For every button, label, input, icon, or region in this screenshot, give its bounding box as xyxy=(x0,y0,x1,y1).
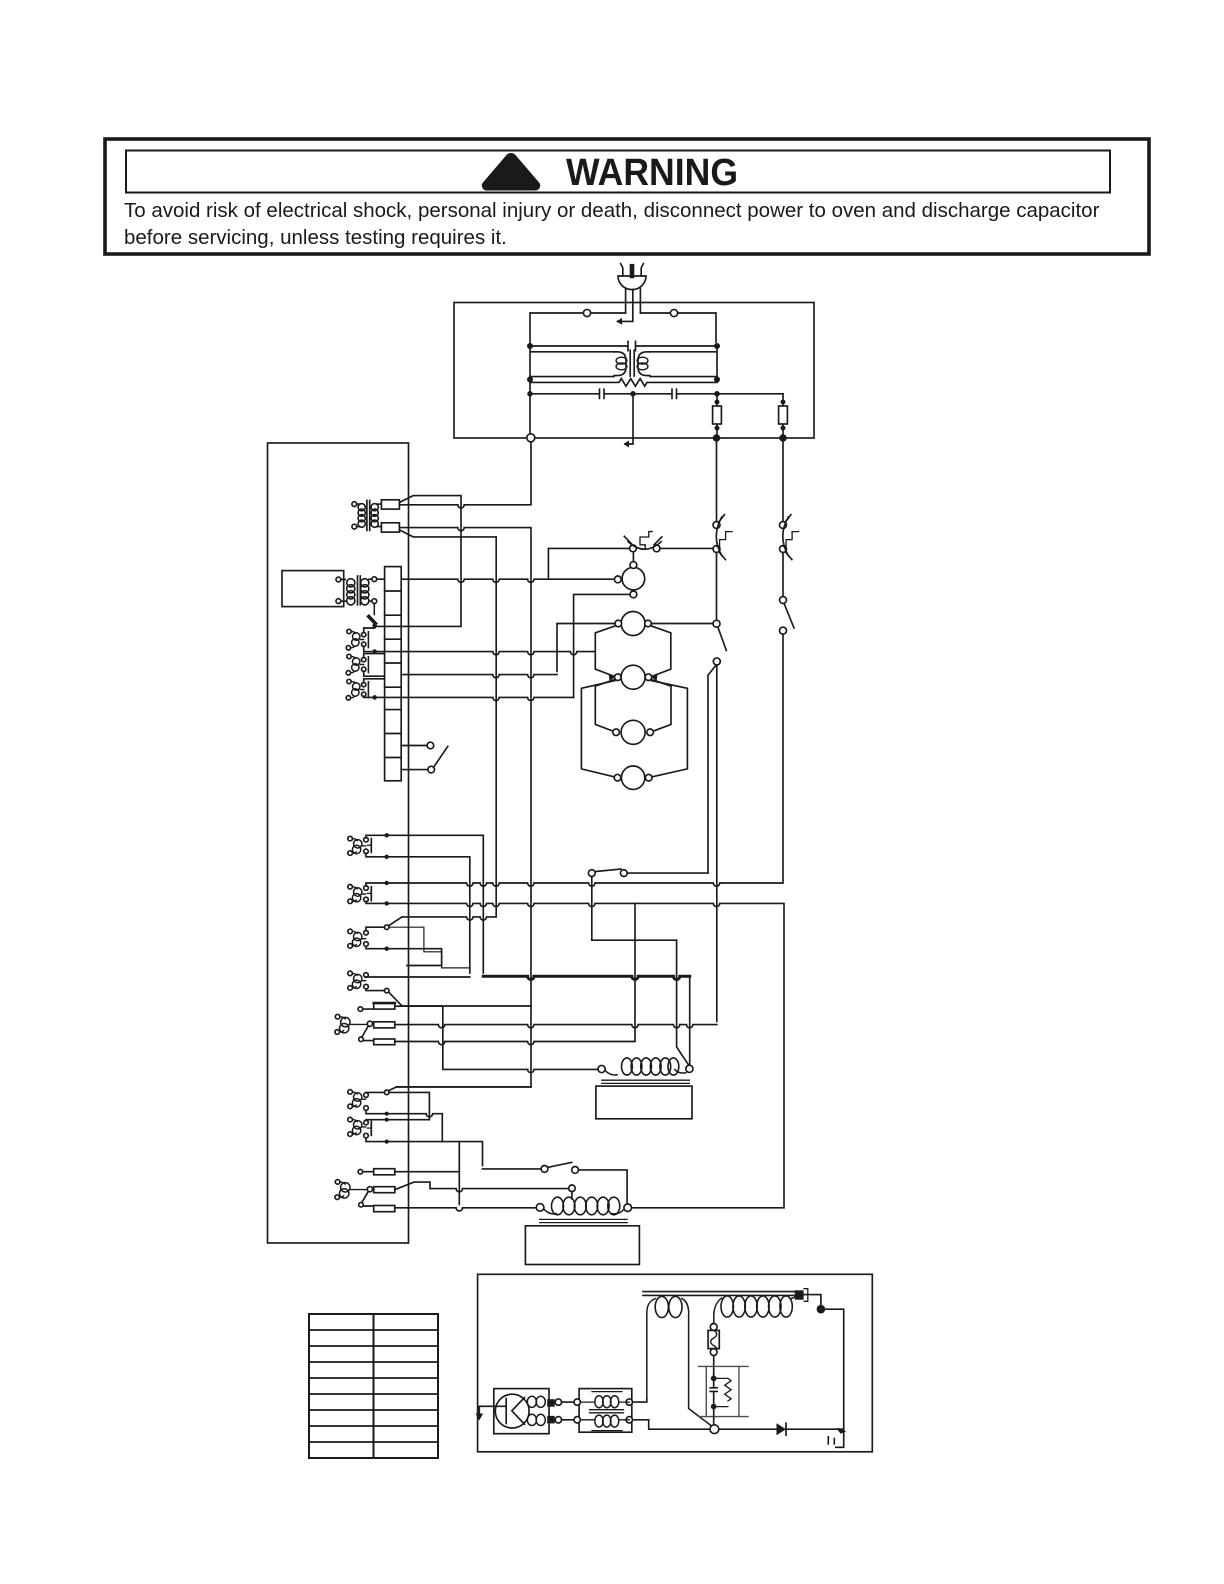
wire R11 to bus junction xyxy=(399,442,531,508)
left rail to bus xyxy=(529,382,531,434)
wire cell5 to M2 lead xyxy=(401,675,557,678)
wire M2 left lead xyxy=(557,624,615,672)
wire RY-E bottom xyxy=(366,1110,442,1141)
junction dots C1 xyxy=(530,343,717,349)
open circle junction on bus xyxy=(527,434,535,442)
relay RY-D coil xyxy=(348,971,366,990)
selector SW-B pivot and blade xyxy=(358,1169,374,1207)
relay transformer T2 xyxy=(336,576,377,605)
stirrer motor M3 xyxy=(615,665,652,689)
grey aux staircase xyxy=(389,927,470,968)
junction dots on bus xyxy=(717,434,784,442)
junction dot xyxy=(385,881,389,885)
relay RY-C contact open xyxy=(364,917,402,946)
junction dot xyxy=(385,833,389,837)
relay RY-E coil xyxy=(348,1090,366,1109)
magnetron ground xyxy=(476,1406,507,1420)
plug ground lead with arrow xyxy=(618,290,633,322)
monitor interlock switch S5 xyxy=(588,869,708,940)
HV secondary winding L3 xyxy=(714,1293,798,1324)
convection motor M4 xyxy=(613,720,654,744)
resistor R5 xyxy=(374,1187,395,1193)
strip relay RY2 xyxy=(346,654,384,677)
HV transformer label box xyxy=(525,1226,639,1265)
thin continuation and verticals to coil RY10 xyxy=(677,940,690,1065)
capacitor line C2 C3 xyxy=(530,389,783,398)
control unit box xyxy=(268,443,409,1243)
relay RY-C coil xyxy=(348,929,366,948)
choke winding loops xyxy=(616,357,648,370)
wire cell8 to start switch xyxy=(401,745,427,747)
selector SW-A pivot and blade xyxy=(358,1007,374,1042)
wire dot to right rail xyxy=(825,1309,844,1429)
wire RY-F bottom to relay switch xyxy=(366,1138,483,1166)
relay RY-F coil xyxy=(348,1117,366,1136)
wire R11 diagonal to upper run xyxy=(375,496,461,627)
fuse F2 xyxy=(779,394,788,438)
connector pin circle right xyxy=(670,309,677,316)
magnetron filament loops xyxy=(527,1396,545,1425)
junction dot HV xyxy=(817,1305,826,1314)
relay RY-D contact open xyxy=(364,973,470,1006)
junction dot cell4 xyxy=(372,649,377,654)
core terminal square xyxy=(795,1290,804,1299)
wire M2 right lead xyxy=(651,623,713,625)
wire R1 to coil line xyxy=(395,1006,599,1072)
choke winding brackets xyxy=(614,352,650,376)
resistor R6 xyxy=(374,1206,395,1212)
wire bus end y1087 xyxy=(397,1086,531,1088)
wire R3 to vertical 635 xyxy=(395,903,635,1044)
thermal cutout TCO xyxy=(624,532,713,552)
relay RY-E contact xyxy=(364,1087,430,1120)
thick wire y976 xyxy=(483,976,689,979)
magnetron MG1 xyxy=(494,1389,549,1434)
relay RY-A coil xyxy=(348,836,366,855)
power relay box RY10 xyxy=(282,571,344,607)
HV diode D1 xyxy=(719,1423,844,1435)
HV secondary core xyxy=(643,1292,801,1296)
wire R5 to coil tap xyxy=(395,1182,569,1192)
warning outer frame xyxy=(105,139,1149,254)
resistor R3 xyxy=(374,1039,395,1045)
wire R12 diagonal lower run xyxy=(400,530,497,917)
motor loop M2-M3 xyxy=(595,626,671,676)
HV transformer primary coil T3 xyxy=(536,1197,631,1222)
svg-text:before servicing, unless testi: before servicing, unless testing require… xyxy=(124,226,507,249)
wire R6 to HV primary left xyxy=(395,1208,537,1211)
relay RY-A contact xyxy=(364,837,372,853)
HV transformer primary tap xyxy=(569,1185,576,1199)
noise filter box xyxy=(454,303,814,439)
interlock switch S1 (line side) xyxy=(713,442,732,620)
strip relay RY3 xyxy=(346,679,384,700)
wire T4 lower to cathode bus xyxy=(633,1420,710,1429)
relay RY-B contact xyxy=(364,886,372,902)
relay RY-F contact xyxy=(364,1120,372,1138)
parts table xyxy=(309,1314,438,1458)
resistor R1 (bold top) xyxy=(374,1003,395,1009)
resistor R4 xyxy=(374,1169,395,1175)
junction dots xyxy=(385,1114,389,1142)
cathode junction circle xyxy=(710,1425,719,1434)
wire M1 bottom to strip cell6 riser xyxy=(574,594,630,697)
junction dot xyxy=(385,855,389,859)
turntable motor M2 xyxy=(615,612,651,636)
junction dot cell6 xyxy=(372,695,377,700)
wire cell9 to start switch xyxy=(401,769,428,771)
wire transformer to thermal line xyxy=(377,548,630,582)
filament winding L2 xyxy=(647,1296,712,1426)
fan motor M1 xyxy=(614,552,644,598)
resistor R11 xyxy=(381,500,399,509)
wire R4 vertical link xyxy=(458,1142,460,1205)
terminal bracket xyxy=(804,1289,808,1302)
monitor switch S3 open xyxy=(780,597,795,635)
relay select switch S7 xyxy=(483,1162,628,1204)
choke lower leads xyxy=(530,376,717,378)
junction dot xyxy=(385,947,389,951)
wire RY-F top xyxy=(366,1119,429,1122)
svg-text:To avoid risk of electrical sh: To avoid risk of electrical shock, perso… xyxy=(124,199,1100,222)
warning triangle icon xyxy=(482,153,540,191)
wires magnetron to filament transformer xyxy=(562,1402,574,1420)
selector SW-A coil xyxy=(335,1014,367,1034)
relay RY10 box xyxy=(596,1086,692,1119)
wire RY-C bottom Z link xyxy=(366,946,442,965)
warning header inner box xyxy=(126,151,1110,193)
capacitor C1 line xyxy=(530,341,717,350)
resistor R2 xyxy=(374,1022,395,1028)
choke coil L1 upper leads xyxy=(530,346,717,382)
bus wire y903 RY-B bottom to HV primary xyxy=(366,901,784,1207)
junction dot xyxy=(385,901,389,905)
center ground stub with arrow xyxy=(625,394,633,444)
resistor R-filter zigzag line xyxy=(530,379,717,387)
relay RY-B coil xyxy=(348,885,366,904)
wire cell4 to motor loop xyxy=(375,652,596,655)
chassis ground G1 xyxy=(828,1428,846,1447)
motor loop M3-M5 outer xyxy=(581,681,687,777)
wire y917 to vertical 496 xyxy=(402,917,496,920)
motor loop M3-M4 xyxy=(595,679,671,731)
junction dots cap line xyxy=(530,391,717,397)
start switch S6 xyxy=(427,742,448,773)
strip relay RY1 xyxy=(346,628,375,652)
fuse F1 xyxy=(713,394,722,438)
magnetron terminal circles xyxy=(555,1399,561,1405)
selector SW-B coil xyxy=(335,1180,367,1200)
wire y1006 to bus xyxy=(402,1005,531,1007)
filament transformer T4 xyxy=(574,1389,633,1433)
HV fuse F3 xyxy=(708,1324,719,1375)
HV capacitor C4 xyxy=(699,1366,749,1424)
connector strip CN1 xyxy=(385,567,402,781)
svg-text:WARNING: WARNING xyxy=(566,152,738,194)
wire square to junction dot xyxy=(804,1295,821,1305)
bold link T2 to junction xyxy=(369,617,376,624)
wire door switch to lower chain xyxy=(708,665,717,1022)
choke core xyxy=(630,350,634,376)
interlock switch S2 (neutral side) xyxy=(780,442,799,597)
wire R4 lead xyxy=(395,1171,460,1173)
HV section box xyxy=(478,1274,873,1452)
wire R12 to main bus + bus down to bottom xyxy=(397,528,531,1087)
wire T4 to winding vertical xyxy=(633,1399,647,1403)
wire RY-A top to vertical 483 xyxy=(366,835,483,973)
plug lead wires xyxy=(626,289,641,314)
junction dots filter mid xyxy=(530,377,717,383)
wire R2 to vertical 716 xyxy=(395,1025,717,1028)
filter top loop wire xyxy=(530,313,716,346)
filament terminal squares xyxy=(547,1399,555,1407)
connector pin circle left xyxy=(583,309,590,316)
power plug P1 xyxy=(618,264,646,290)
wire RY-A bottom to vertical 470 xyxy=(366,853,470,973)
oven lamp M5 xyxy=(614,766,652,789)
bus wire y883 RY-B top to monitor switch xyxy=(366,634,783,886)
junction dot cell3 xyxy=(372,623,377,628)
wire fan motor left lead xyxy=(548,578,614,580)
door switch S4 xyxy=(713,620,726,665)
wire cell6 to monitor vertical xyxy=(375,697,574,700)
resistor R12 xyxy=(381,523,399,532)
relay coil RY10 with core xyxy=(598,1058,693,1084)
loop arrowheads xyxy=(609,674,658,681)
low voltage transformer T1 xyxy=(352,500,382,530)
